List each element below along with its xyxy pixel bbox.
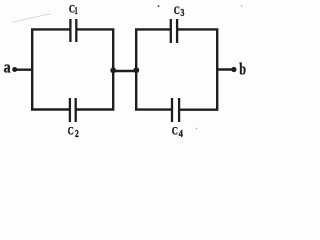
node a (junction dot) xyxy=(12,67,17,72)
wire: loop2 right side (top run from C3, right vertical, bottom run from C4) xyxy=(177,29,217,109)
svg-text:a: a xyxy=(4,57,11,76)
svg-text:4: 4 xyxy=(179,129,184,140)
label C1 xyxy=(69,1,78,17)
wire: terminal a to left loop xyxy=(15,68,33,70)
capacitor C3 xyxy=(171,19,177,43)
svg-text:1: 1 xyxy=(75,6,78,17)
svg-text:2: 2 xyxy=(75,129,79,140)
node: middle junction right dot xyxy=(133,67,139,73)
capacitor C1 xyxy=(70,19,76,42)
svg-text:C: C xyxy=(172,124,178,138)
wire: middle link between loops xyxy=(113,70,136,72)
svg-text:C: C xyxy=(174,3,180,17)
node b (junction dot) xyxy=(231,67,236,72)
label C3 xyxy=(174,3,185,19)
svg-text:3: 3 xyxy=(180,8,184,19)
svg-text:C: C xyxy=(68,123,74,137)
wire: loop1 left side (top-left corner, left vertical, bottom-left run to C2) xyxy=(32,29,70,109)
wire: loop2 left side (top run to C3, left vertical, bottom run to C4) xyxy=(136,29,172,109)
capacitor C4 xyxy=(172,98,179,122)
label C2 xyxy=(68,123,79,140)
label C4 xyxy=(172,124,184,140)
wire: loop1 right side (top run from C1, right vertical, bottom run from C2) xyxy=(76,29,114,109)
wire: right loop to terminal b xyxy=(217,68,234,70)
node: middle junction left dot xyxy=(110,67,116,73)
capacitor C2 xyxy=(70,98,76,122)
svg-text:b: b xyxy=(239,59,246,78)
